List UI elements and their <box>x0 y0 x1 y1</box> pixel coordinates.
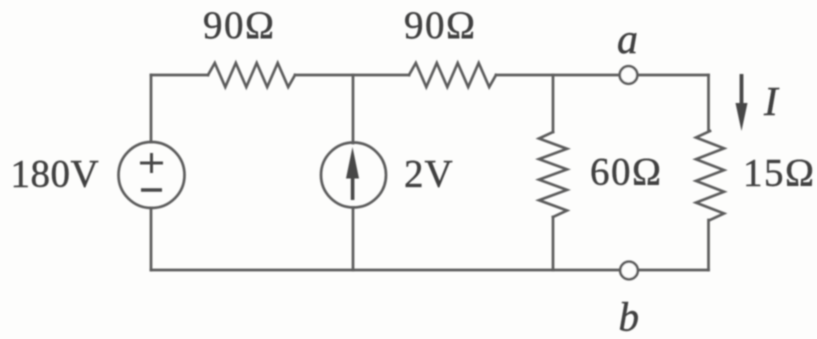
svg-text:a: a <box>617 17 638 63</box>
wire top-left horizontal segment <box>151 74 208 77</box>
voltage source minus sign <box>141 188 162 191</box>
wire R2 to node a <box>496 74 619 77</box>
svg-text:I: I <box>763 78 780 124</box>
node b terminal circle <box>620 262 638 280</box>
svg-text:b: b <box>619 294 640 339</box>
wire bottom rail left of node b <box>151 269 619 272</box>
label 180V <box>11 153 100 196</box>
wire left rail top <box>150 75 153 142</box>
wire 60ohm branch top <box>552 75 555 132</box>
svg-text:90Ω: 90Ω <box>404 4 476 47</box>
wire right rail bottom <box>707 220 710 270</box>
resistor 15ohm <box>696 131 724 220</box>
wire between R1 and R2 <box>295 74 409 77</box>
label node a <box>617 17 638 63</box>
label 60ohm <box>590 151 662 194</box>
label 15ohm <box>743 152 815 195</box>
svg-text:90Ω: 90Ω <box>203 4 275 47</box>
label I <box>763 78 780 124</box>
label 90ohm right <box>404 4 476 47</box>
current I arrow <box>736 74 748 131</box>
label node b <box>619 294 640 339</box>
wire bottom rail right of node b <box>639 269 709 272</box>
resistor 90ohm left (R1) <box>208 63 295 87</box>
current source arrow <box>346 147 359 200</box>
wire middle branch bottom <box>352 208 355 271</box>
label 90ohm left <box>203 4 275 47</box>
voltage source plus sign <box>140 153 163 173</box>
svg-text:180V: 180V <box>11 153 100 196</box>
label 2V <box>404 153 454 196</box>
wire node a to top-right corner <box>639 74 709 77</box>
wire left rail bottom <box>150 208 153 270</box>
node a terminal circle <box>620 66 638 84</box>
svg-text:2V: 2V <box>404 153 454 196</box>
current source 2V circle <box>321 143 386 208</box>
resistor 60ohm <box>539 132 567 217</box>
voltage source 180V circle <box>119 142 185 208</box>
wire 60ohm branch bottom <box>552 217 555 270</box>
svg-text:15Ω: 15Ω <box>743 152 815 195</box>
wire right rail top <box>707 75 710 131</box>
svg-text:60Ω: 60Ω <box>590 151 662 194</box>
resistor 90ohm right (R2) <box>409 63 496 87</box>
wire middle branch top <box>352 75 355 143</box>
